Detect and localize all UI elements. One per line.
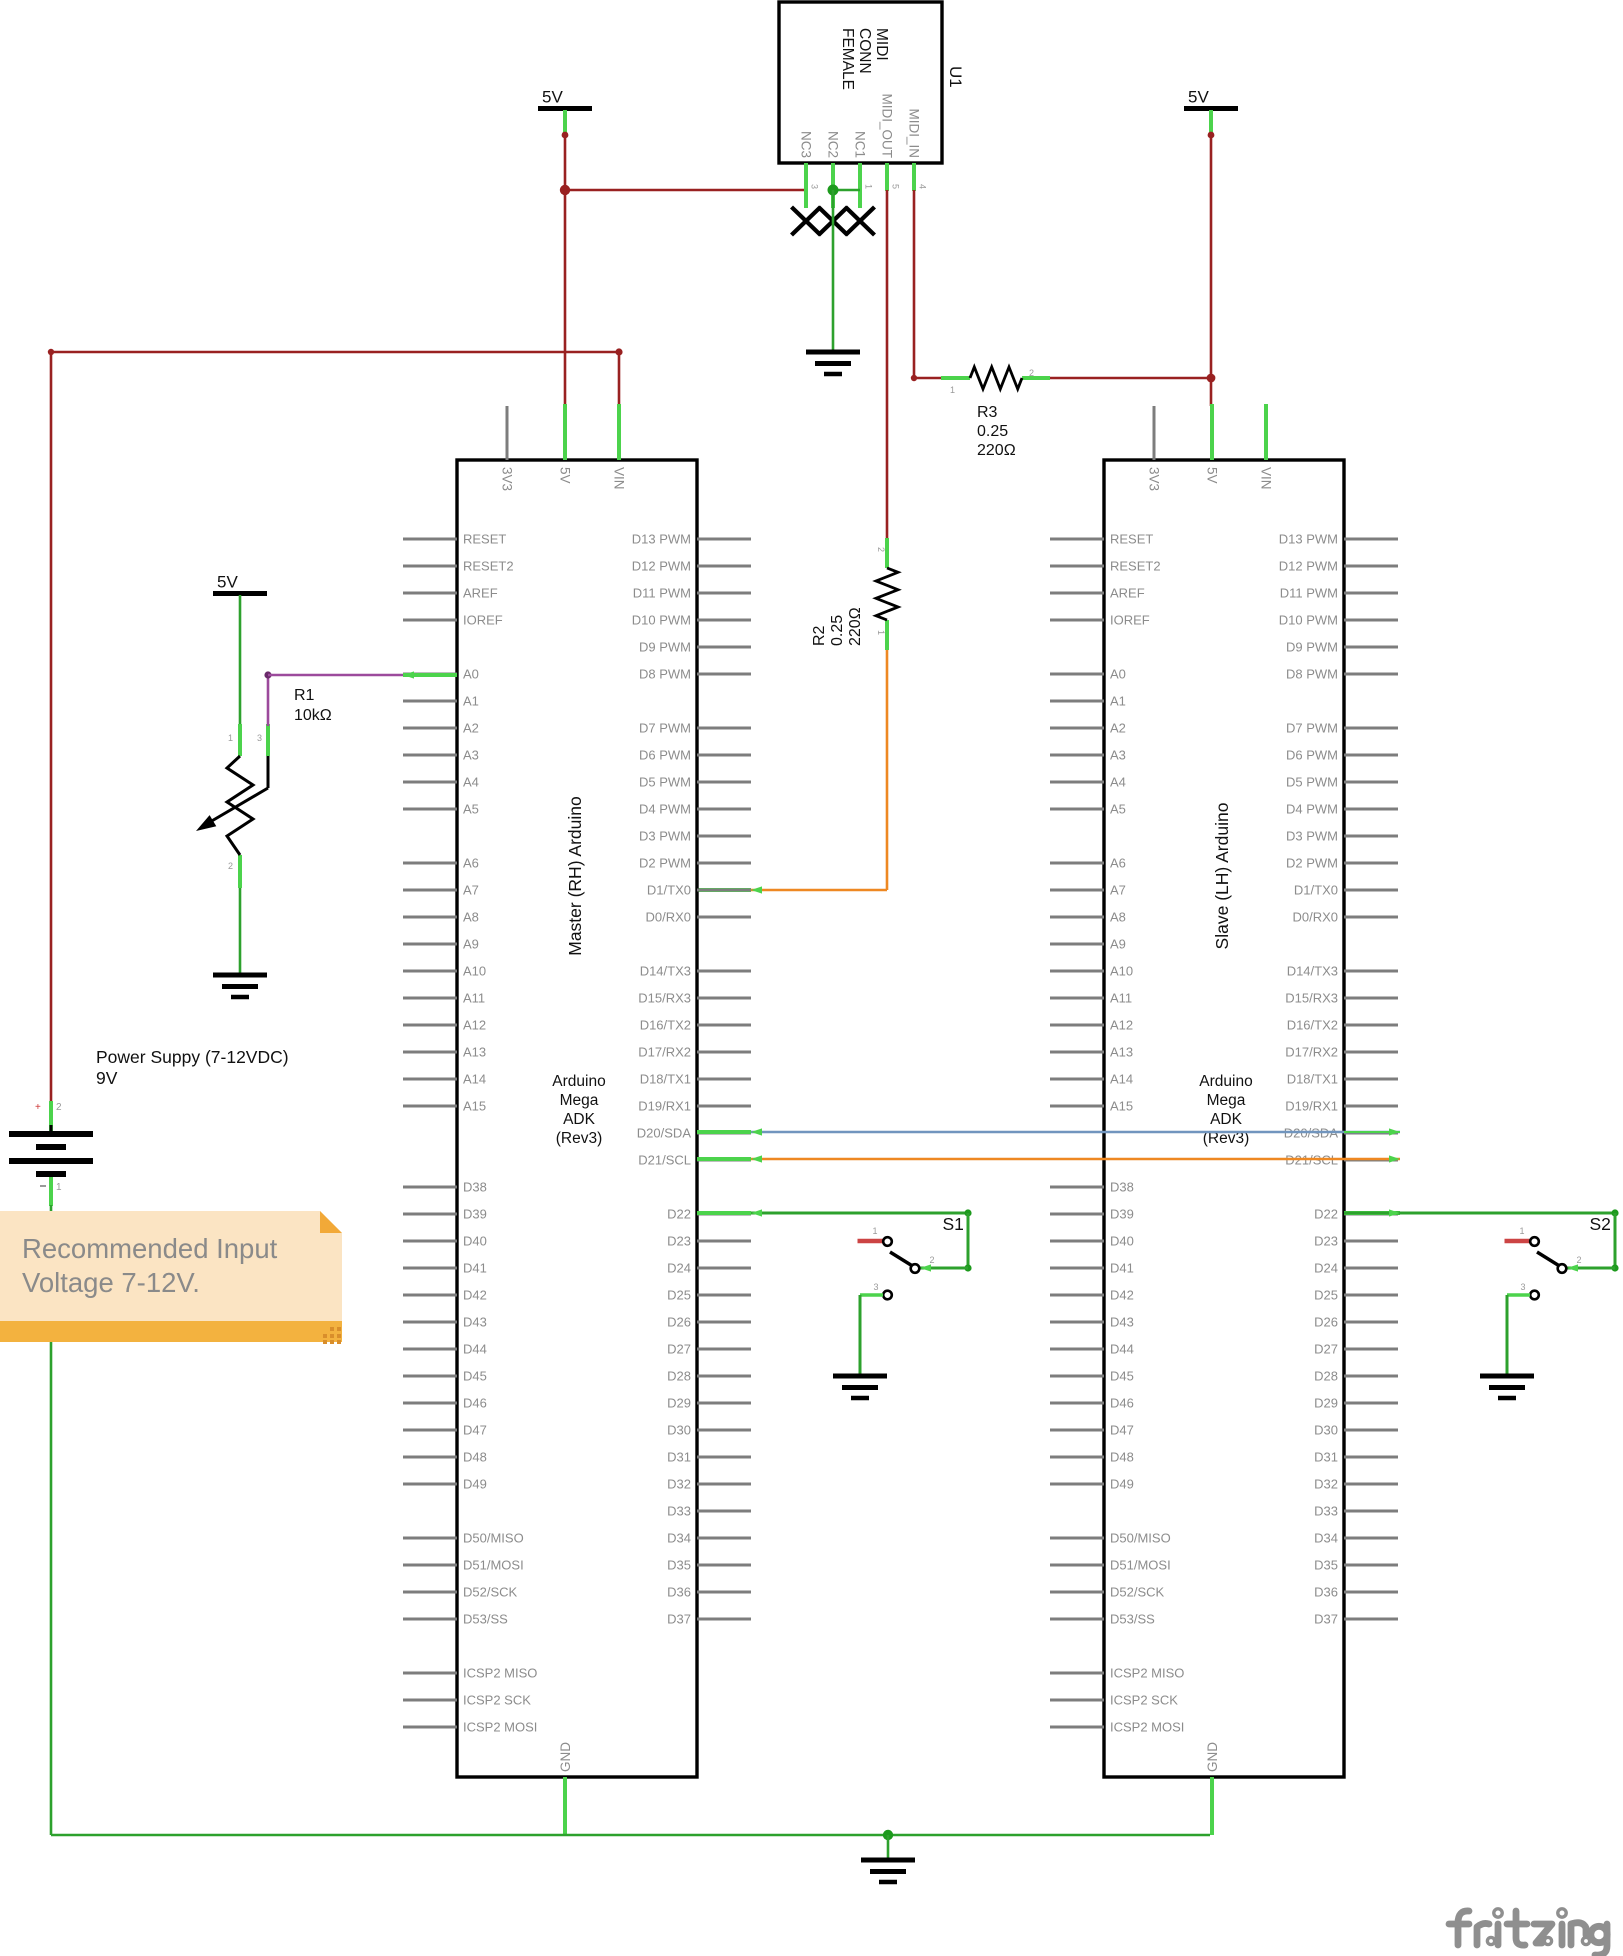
svg-text:D53/SS: D53/SS (463, 1612, 508, 1627)
svg-text:A7: A7 (463, 883, 479, 898)
svg-text:D37: D37 (1314, 1612, 1338, 1627)
wire S2 pin3 to ground (1507, 1295, 1530, 1376)
wire R2 pin1 down/left to master D1/TX0 (697, 650, 887, 894)
svg-text:A10: A10 (463, 964, 486, 979)
svg-text:RESET: RESET (463, 532, 506, 547)
svg-text:A6: A6 (463, 856, 479, 871)
svg-text:D29: D29 (667, 1396, 691, 1411)
svg-text:D17/RX2: D17/RX2 (1285, 1045, 1338, 1060)
svg-text:D49: D49 (463, 1477, 487, 1492)
svg-text:A13: A13 (1110, 1045, 1133, 1060)
ground symbol under pot (213, 975, 267, 997)
no-connect X on NC3 (792, 207, 821, 235)
svg-text:R20.25220Ω: R20.25220Ω (811, 607, 864, 646)
wire junction down to master 5V pin (564, 190, 567, 406)
wire ground bus across bottom (51, 1834, 1210, 1837)
svg-text:D28: D28 (667, 1369, 691, 1384)
wire 5V down to pot pin1 (239, 595, 242, 726)
svg-text:R3: R3 (977, 404, 998, 421)
svg-text:D26: D26 (667, 1315, 691, 1330)
svg-text:GND: GND (1205, 1742, 1220, 1772)
wire master D22 to S1 (697, 1209, 972, 1271)
svg-text:D13 PWM: D13 PWM (632, 532, 691, 547)
fritzing watermark (1449, 1909, 1607, 1955)
svg-text:VIN: VIN (1259, 467, 1274, 490)
svg-text:D11 PWM: D11 PWM (633, 586, 691, 601)
svg-text:D9 PWM: D9 PWM (1286, 640, 1338, 655)
svg-text:D7 PWM: D7 PWM (639, 721, 691, 736)
Arduino Mega U3 Slave (LH) (1050, 404, 1398, 1835)
svg-text:D46: D46 (463, 1396, 487, 1411)
svg-text:A8: A8 (1110, 910, 1126, 925)
svg-text:D3 PWM: D3 PWM (1286, 829, 1338, 844)
svg-text:D44: D44 (1110, 1342, 1134, 1357)
wire pot wiper to master A0 (purple) (264, 671, 457, 726)
wire 5V-left symbol down to junction (562, 110, 569, 190)
svg-text:D28: D28 (1314, 1369, 1338, 1384)
svg-text:Voltage 7-12V.: Voltage 7-12V. (22, 1267, 200, 1298)
svg-text:A0: A0 (463, 667, 479, 682)
svg-text:2: 2 (228, 861, 233, 871)
svg-text:D11 PWM: D11 PWM (1280, 586, 1338, 601)
svg-text:(Rev3): (Rev3) (556, 1130, 603, 1147)
ground symbol under S1 (833, 1376, 887, 1398)
svg-text:5V: 5V (217, 573, 238, 592)
wire MIDI_IN down and right to R3 pin1 (911, 190, 943, 381)
svg-text:D38: D38 (1110, 1180, 1134, 1195)
switch S2 (1505, 1214, 1611, 1299)
svg-text:RESET2: RESET2 (1110, 559, 1161, 574)
svg-text:5V: 5V (1188, 88, 1209, 107)
svg-text:ICSP2 MISO: ICSP2 MISO (463, 1666, 537, 1681)
svg-text:1: 1 (950, 385, 955, 395)
svg-text:1: 1 (56, 1182, 62, 1193)
svg-text:D18/TX1: D18/TX1 (640, 1072, 691, 1087)
svg-text:D43: D43 (463, 1315, 487, 1330)
svg-text:D40: D40 (1110, 1234, 1134, 1249)
svg-text:A3: A3 (463, 748, 479, 763)
svg-text:D51/MOSI: D51/MOSI (1110, 1558, 1171, 1573)
svg-text:D12 PWM: D12 PWM (632, 559, 691, 574)
svg-text:1: 1 (864, 184, 874, 189)
svg-text:A11: A11 (1110, 991, 1132, 1006)
svg-text:D6 PWM: D6 PWM (639, 748, 691, 763)
svg-text:D20/SDA: D20/SDA (637, 1126, 692, 1141)
svg-text:D35: D35 (1314, 1558, 1338, 1573)
svg-text:A10: A10 (1110, 964, 1133, 979)
svg-text:2: 2 (930, 1255, 935, 1265)
svg-text:MIDI_OUT: MIDI_OUT (880, 93, 895, 158)
svg-text:9V: 9V (96, 1068, 118, 1088)
svg-text:A2: A2 (1110, 721, 1126, 736)
svg-text:D9 PWM: D9 PWM (639, 640, 691, 655)
ground symbol bottom (861, 1860, 915, 1882)
ground symbol under U1 (806, 352, 860, 374)
svg-text:D7 PWM: D7 PWM (1286, 721, 1338, 736)
svg-text:ADK: ADK (563, 1111, 596, 1128)
svg-text:D2 PWM: D2 PWM (1286, 856, 1338, 871)
svg-text:D15/RX3: D15/RX3 (1285, 991, 1338, 1006)
wire battery+ horizontal to master VIN (51, 348, 623, 355)
svg-text:D47: D47 (463, 1423, 487, 1438)
power symbol 5V (right, feeds slave 5V) (1184, 88, 1238, 109)
svg-text:ICSP2 MOSI: ICSP2 MOSI (1110, 1720, 1184, 1735)
svg-text:3: 3 (874, 1282, 879, 1292)
svg-text:D16/TX2: D16/TX2 (640, 1018, 691, 1033)
power symbol 5V (left, feeds MIDI conn and master 5V) (538, 88, 592, 109)
svg-text:D19/RX1: D19/RX1 (1285, 1099, 1338, 1114)
svg-text:D6 PWM: D6 PWM (1286, 748, 1338, 763)
svg-text:D2 PWM: D2 PWM (639, 856, 691, 871)
svg-text:D23: D23 (1314, 1234, 1338, 1249)
svg-text:D53/SS: D53/SS (1110, 1612, 1155, 1627)
svg-text:D22: D22 (1314, 1207, 1338, 1222)
svg-text:Slave (LH) Arduino: Slave (LH) Arduino (1212, 803, 1232, 950)
svg-text:A4: A4 (1110, 775, 1126, 790)
svg-text:Recommended Input: Recommended Input (22, 1233, 278, 1264)
svg-text:2: 2 (1577, 1255, 1582, 1265)
svg-text:D18/TX1: D18/TX1 (1287, 1072, 1338, 1087)
wire junction to U1 pin NC3 (565, 189, 806, 192)
node junction ground bus (883, 1830, 893, 1840)
svg-text:D8 PWM: D8 PWM (639, 667, 691, 682)
svg-text:A12: A12 (463, 1018, 486, 1033)
wire junction to ground symbol (887, 1835, 890, 1860)
svg-text:D43: D43 (1110, 1315, 1134, 1330)
svg-text:D45: D45 (1110, 1369, 1134, 1384)
wire NC2 to NC1 link (833, 189, 860, 192)
svg-text:D45: D45 (463, 1369, 487, 1384)
svg-text:MIDI_IN: MIDI_IN (907, 108, 922, 158)
svg-text:D51/MOSI: D51/MOSI (463, 1558, 524, 1573)
svg-text:D34: D34 (1314, 1531, 1338, 1546)
svg-text:D33: D33 (667, 1504, 691, 1519)
ground symbol under S2 (1480, 1376, 1534, 1398)
svg-text:D10 PWM: D10 PWM (1279, 613, 1338, 628)
svg-text:A14: A14 (1110, 1072, 1133, 1087)
svg-text:D15/RX3: D15/RX3 (638, 991, 691, 1006)
svg-text:NC2: NC2 (826, 131, 841, 158)
svg-text:D5 PWM: D5 PWM (639, 775, 691, 790)
svg-text:D19/RX1: D19/RX1 (638, 1099, 691, 1114)
svg-text:D29: D29 (1314, 1396, 1338, 1411)
svg-text:A8: A8 (463, 910, 479, 925)
svg-text:ICSP2 MISO: ICSP2 MISO (1110, 1666, 1184, 1681)
node junction 5V-left (560, 185, 570, 195)
svg-text:A7: A7 (1110, 883, 1126, 898)
svg-text:A1: A1 (1110, 694, 1126, 709)
svg-text:3: 3 (1521, 1282, 1526, 1292)
wire SCL master D21 to slave D21 (orange) (697, 1155, 1400, 1162)
svg-text:U1: U1 (946, 66, 965, 88)
svg-text:3V3: 3V3 (500, 467, 515, 491)
svg-text:RESET2: RESET2 (463, 559, 514, 574)
svg-text:S1: S1 (943, 1214, 964, 1234)
svg-text:1: 1 (1520, 1226, 1525, 1236)
svg-text:1: 1 (873, 1226, 878, 1236)
Arduino Mega U2 Master (RH) (403, 404, 751, 1835)
svg-text:D21/SCL: D21/SCL (638, 1153, 691, 1168)
svg-text:A15: A15 (1110, 1099, 1133, 1114)
svg-text:D39: D39 (1110, 1207, 1134, 1222)
svg-text:D48: D48 (1110, 1450, 1134, 1465)
svg-text:3: 3 (810, 184, 820, 189)
svg-text:AREF: AREF (1110, 586, 1145, 601)
svg-text:Mega: Mega (1207, 1092, 1246, 1109)
svg-text:0.25: 0.25 (977, 423, 1008, 440)
svg-text:D50/MISO: D50/MISO (463, 1531, 524, 1546)
svg-text:D3 PWM: D3 PWM (639, 829, 691, 844)
resistor R2 (811, 538, 898, 650)
svg-text:A4: A4 (463, 775, 479, 790)
svg-text:D36: D36 (1314, 1585, 1338, 1600)
power symbol 5V (pot R1 top) (213, 573, 267, 594)
wire SDA master D20 to slave D20 (blue) (697, 1128, 1400, 1135)
svg-text:D14/TX3: D14/TX3 (1287, 964, 1338, 979)
svg-text:A12: A12 (1110, 1018, 1133, 1033)
svg-text:A6: A6 (1110, 856, 1126, 871)
svg-text:A11: A11 (463, 991, 485, 1006)
svg-text:D40: D40 (463, 1234, 487, 1249)
svg-text:IOREF: IOREF (1110, 613, 1150, 628)
svg-text:D5 PWM: D5 PWM (1286, 775, 1338, 790)
svg-text:D32: D32 (667, 1477, 691, 1492)
svg-text:2: 2 (56, 1102, 62, 1113)
svg-text:5V: 5V (1205, 467, 1220, 484)
svg-text:D46: D46 (1110, 1396, 1134, 1411)
svg-text:A13: A13 (463, 1045, 486, 1060)
svg-text:2: 2 (1029, 368, 1034, 378)
svg-text:D50/MISO: D50/MISO (1110, 1531, 1171, 1546)
svg-text:D1/TX0: D1/TX0 (647, 883, 691, 898)
svg-text:D36: D36 (667, 1585, 691, 1600)
svg-text:Arduino: Arduino (1199, 1073, 1252, 1090)
MIDI connector U1 box (779, 2, 942, 208)
svg-text:Mega: Mega (560, 1092, 599, 1109)
wire MIDI_OUT down to R2 pin2 (886, 190, 889, 540)
wire 5V-right symbol down to slave 5V pin (1208, 110, 1215, 406)
svg-text:D35: D35 (667, 1558, 691, 1573)
svg-text:D12 PWM: D12 PWM (1279, 559, 1338, 574)
svg-text:A15: A15 (463, 1099, 486, 1114)
svg-text:10kΩ: 10kΩ (294, 707, 332, 724)
svg-text:D32: D32 (1314, 1477, 1338, 1492)
battery 9V power supply (9, 1047, 289, 1206)
resistor R3 (941, 367, 1050, 459)
svg-text:A9: A9 (1110, 937, 1126, 952)
svg-text:4: 4 (918, 184, 928, 189)
svg-text:D4 PWM: D4 PWM (639, 802, 691, 817)
svg-text:D14/TX3: D14/TX3 (640, 964, 691, 979)
svg-text:D42: D42 (463, 1288, 487, 1303)
svg-text:D34: D34 (667, 1531, 691, 1546)
sticky note: Recommended Input Voltage 7-12V. (0, 1211, 342, 1344)
svg-text:D41: D41 (463, 1261, 487, 1276)
svg-text:1: 1 (876, 630, 886, 635)
svg-text:D16/TX2: D16/TX2 (1287, 1018, 1338, 1033)
svg-text:D39: D39 (463, 1207, 487, 1222)
wire corner down to master VIN pin (618, 352, 621, 406)
svg-text:D25: D25 (667, 1288, 691, 1303)
potentiometer R1 (196, 687, 332, 888)
svg-text:D10 PWM: D10 PWM (632, 613, 691, 628)
svg-text:D1/TX0: D1/TX0 (1294, 883, 1338, 898)
wire slave D22 to S2 (1344, 1209, 1619, 1271)
svg-text:D22: D22 (667, 1207, 691, 1222)
svg-text:Power Suppy (7-12VDC): Power Suppy (7-12VDC) (96, 1047, 289, 1067)
svg-text:D52/SCK: D52/SCK (1110, 1585, 1165, 1600)
svg-text:+: + (35, 1102, 41, 1113)
svg-text:ADK: ADK (1210, 1111, 1243, 1128)
svg-text:A2: A2 (463, 721, 479, 736)
svg-text:D31: D31 (667, 1450, 691, 1465)
svg-text:VIN: VIN (612, 467, 627, 490)
U1 reference designator (946, 66, 965, 88)
svg-text:5V: 5V (558, 467, 573, 484)
svg-text:A14: A14 (463, 1072, 486, 1087)
svg-text:ICSP2 SCK: ICSP2 SCK (1110, 1693, 1178, 1708)
svg-text:NC3: NC3 (799, 131, 814, 158)
svg-text:5: 5 (891, 184, 901, 189)
svg-text:GND: GND (558, 1742, 573, 1772)
svg-text:1: 1 (228, 733, 233, 743)
node junction R3 to 5V-right (1207, 374, 1216, 383)
svg-text:Master (RH) Arduino: Master (RH) Arduino (565, 796, 585, 956)
svg-text:S2: S2 (1590, 1214, 1611, 1234)
svg-text:D8 PWM: D8 PWM (1286, 667, 1338, 682)
svg-text:D49: D49 (1110, 1477, 1134, 1492)
svg-text:3V3: 3V3 (1147, 467, 1162, 491)
svg-text:D44: D44 (463, 1342, 487, 1357)
svg-text:220Ω: 220Ω (977, 442, 1016, 459)
svg-text:D38: D38 (463, 1180, 487, 1195)
svg-text:D30: D30 (667, 1423, 691, 1438)
svg-text:A0: A0 (1110, 667, 1126, 682)
wire NC2 down to ground (832, 190, 835, 352)
wire S1 pin3 to ground (860, 1295, 883, 1376)
switch S1 (858, 1214, 964, 1299)
svg-text:D48: D48 (463, 1450, 487, 1465)
svg-text:A5: A5 (1110, 802, 1126, 817)
svg-text:D25: D25 (1314, 1288, 1338, 1303)
svg-text:A3: A3 (1110, 748, 1126, 763)
svg-text:D52/SCK: D52/SCK (463, 1585, 518, 1600)
svg-text:D27: D27 (667, 1342, 691, 1357)
svg-text:D23: D23 (667, 1234, 691, 1249)
svg-text:D33: D33 (1314, 1504, 1338, 1519)
svg-text:D0/RX0: D0/RX0 (645, 910, 691, 925)
svg-text:AREF: AREF (463, 586, 498, 601)
svg-text:D41: D41 (1110, 1261, 1134, 1276)
svg-text:D27: D27 (1314, 1342, 1338, 1357)
svg-text:D26: D26 (1314, 1315, 1338, 1330)
svg-text:R1: R1 (294, 687, 315, 704)
svg-text:D0/RX0: D0/RX0 (1292, 910, 1338, 925)
svg-text:5V: 5V (542, 88, 563, 107)
svg-text:D31: D31 (1314, 1450, 1338, 1465)
wire battery- down to ground bus (50, 1205, 53, 1835)
svg-text:Arduino: Arduino (552, 1073, 605, 1090)
svg-text:2: 2 (876, 547, 886, 552)
svg-text:A1: A1 (463, 694, 479, 709)
svg-text:D37: D37 (667, 1612, 691, 1627)
svg-text:D30: D30 (1314, 1423, 1338, 1438)
svg-text:ICSP2 MOSI: ICSP2 MOSI (463, 1720, 537, 1735)
svg-text:D17/RX2: D17/RX2 (638, 1045, 691, 1060)
svg-text:D42: D42 (1110, 1288, 1134, 1303)
svg-text:D4 PWM: D4 PWM (1286, 802, 1338, 817)
svg-text:D24: D24 (1314, 1261, 1338, 1276)
svg-text:NC1: NC1 (853, 131, 868, 158)
svg-text:3: 3 (257, 733, 262, 743)
svg-text:D47: D47 (1110, 1423, 1134, 1438)
svg-text:D13 PWM: D13 PWM (1279, 532, 1338, 547)
svg-text:ICSP2 SCK: ICSP2 SCK (463, 1693, 531, 1708)
wire R3 pin2 to 5V-right vertical (1050, 377, 1211, 380)
svg-text:D24: D24 (667, 1261, 691, 1276)
svg-text:RESET: RESET (1110, 532, 1153, 547)
svg-text:A9: A9 (463, 937, 479, 952)
svg-text:A5: A5 (463, 802, 479, 817)
node junction NC2 (828, 185, 839, 196)
wire battery+ up (48, 349, 54, 1103)
no-connect X on NC2 (819, 207, 848, 235)
svg-text:IOREF: IOREF (463, 613, 503, 628)
wire pot pin2 down to ground (239, 888, 242, 975)
no-connect X on NC1 (846, 207, 875, 235)
